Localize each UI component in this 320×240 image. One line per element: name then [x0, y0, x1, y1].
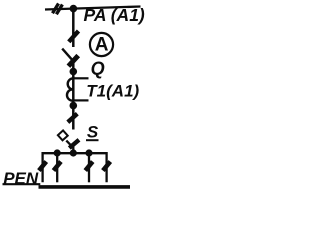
svg-text:PEN: PEN	[3, 169, 39, 188]
svg-text:A: A	[95, 35, 109, 56]
svg-text:T1(A1): T1(A1)	[86, 82, 139, 101]
svg-text:S: S	[87, 122, 99, 141]
svg-text:Q: Q	[91, 59, 105, 79]
svg-text:PA (A1): PA (A1)	[84, 5, 145, 25]
